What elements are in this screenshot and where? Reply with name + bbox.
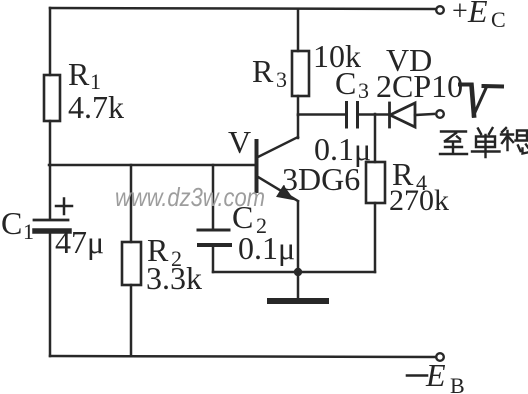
svg-text:1: 1 (23, 219, 34, 244)
terminal +EC circle (436, 6, 444, 14)
char wen (501, 128, 528, 154)
svg-text:3.3k: 3.3k (146, 260, 202, 296)
wire collector to C3 (298, 113, 345, 116)
wire C3 to diode (359, 113, 388, 116)
wire R2 branch top (130, 165, 133, 242)
wire bottom rail (50, 356, 436, 357)
transistor V base bar (255, 141, 259, 191)
svg-text:www.dz3w.com: www.dz3w.com (115, 182, 265, 212)
wire R1 bottom to base line (49, 121, 52, 165)
transistor V emitter line (258, 177, 298, 201)
svg-text:C: C (335, 65, 356, 101)
svg-text:C: C (1, 205, 22, 241)
svg-text:+: + (452, 0, 468, 27)
wire left vertical top (rail to R1) (49, 8, 52, 75)
wire collector vertical (297, 115, 300, 138)
wire R4 branch (374, 114, 377, 162)
resistor R2 (122, 242, 141, 285)
capacitor C3 (347, 103, 358, 128)
char dan (472, 128, 500, 157)
node emitter junction dot (294, 268, 302, 276)
svg-text:3: 3 (358, 78, 369, 103)
svg-text:R: R (68, 56, 90, 92)
svg-text:47μ: 47μ (55, 224, 104, 260)
wire left vertical to C1 (49, 165, 52, 219)
wire C2 branch top (212, 165, 215, 229)
resistor R4 (366, 162, 385, 203)
wire C1 bottom to bottom rail (49, 234, 52, 356)
svg-text:0.1μ: 0.1μ (238, 230, 295, 266)
svg-text:270k: 270k (389, 184, 449, 217)
wire R3 top to rail (297, 9, 300, 51)
svg-text:V: V (228, 124, 251, 160)
wire collector to R3 (297, 96, 300, 115)
svg-text:R: R (252, 53, 274, 89)
wire top rail (50, 8, 436, 9)
label zhi-dan-wen (to monostable) (440, 128, 528, 157)
char zhi (440, 132, 467, 155)
wire R2 bottom (130, 285, 133, 356)
waveform spike symbol (460, 85, 502, 116)
diode VD (390, 103, 416, 127)
svg-text:E: E (467, 0, 488, 29)
resistor R3 (292, 51, 309, 96)
svg-text:3: 3 (276, 67, 287, 92)
label -EB (407, 374, 427, 377)
wire emitter node horizontal (213, 271, 375, 274)
terminal output circle (436, 110, 444, 118)
terminal -EB circle (436, 353, 444, 361)
svg-text:B: B (450, 373, 465, 394)
transistor V emitter arrowhead (278, 187, 293, 199)
transistor V collector line (258, 137, 298, 157)
ground (270, 298, 326, 304)
wire diode to output (415, 114, 434, 115)
resistor R1 (44, 75, 60, 121)
wire R4 bottom (374, 203, 377, 272)
wire to ground (297, 272, 300, 299)
svg-text:C: C (491, 7, 506, 32)
svg-text:E: E (425, 357, 446, 393)
capacitor C1 (34, 220, 69, 231)
capacitor C2 (198, 230, 230, 245)
wire emitter vertical (297, 202, 300, 272)
label + of C1 (56, 199, 72, 215)
svg-text:4.7k: 4.7k (68, 89, 124, 125)
svg-text:3DG6: 3DG6 (282, 161, 360, 197)
svg-text:2CP10: 2CP10 (376, 68, 463, 104)
wire base line (49, 164, 256, 167)
wire C2 bottom (212, 246, 215, 272)
